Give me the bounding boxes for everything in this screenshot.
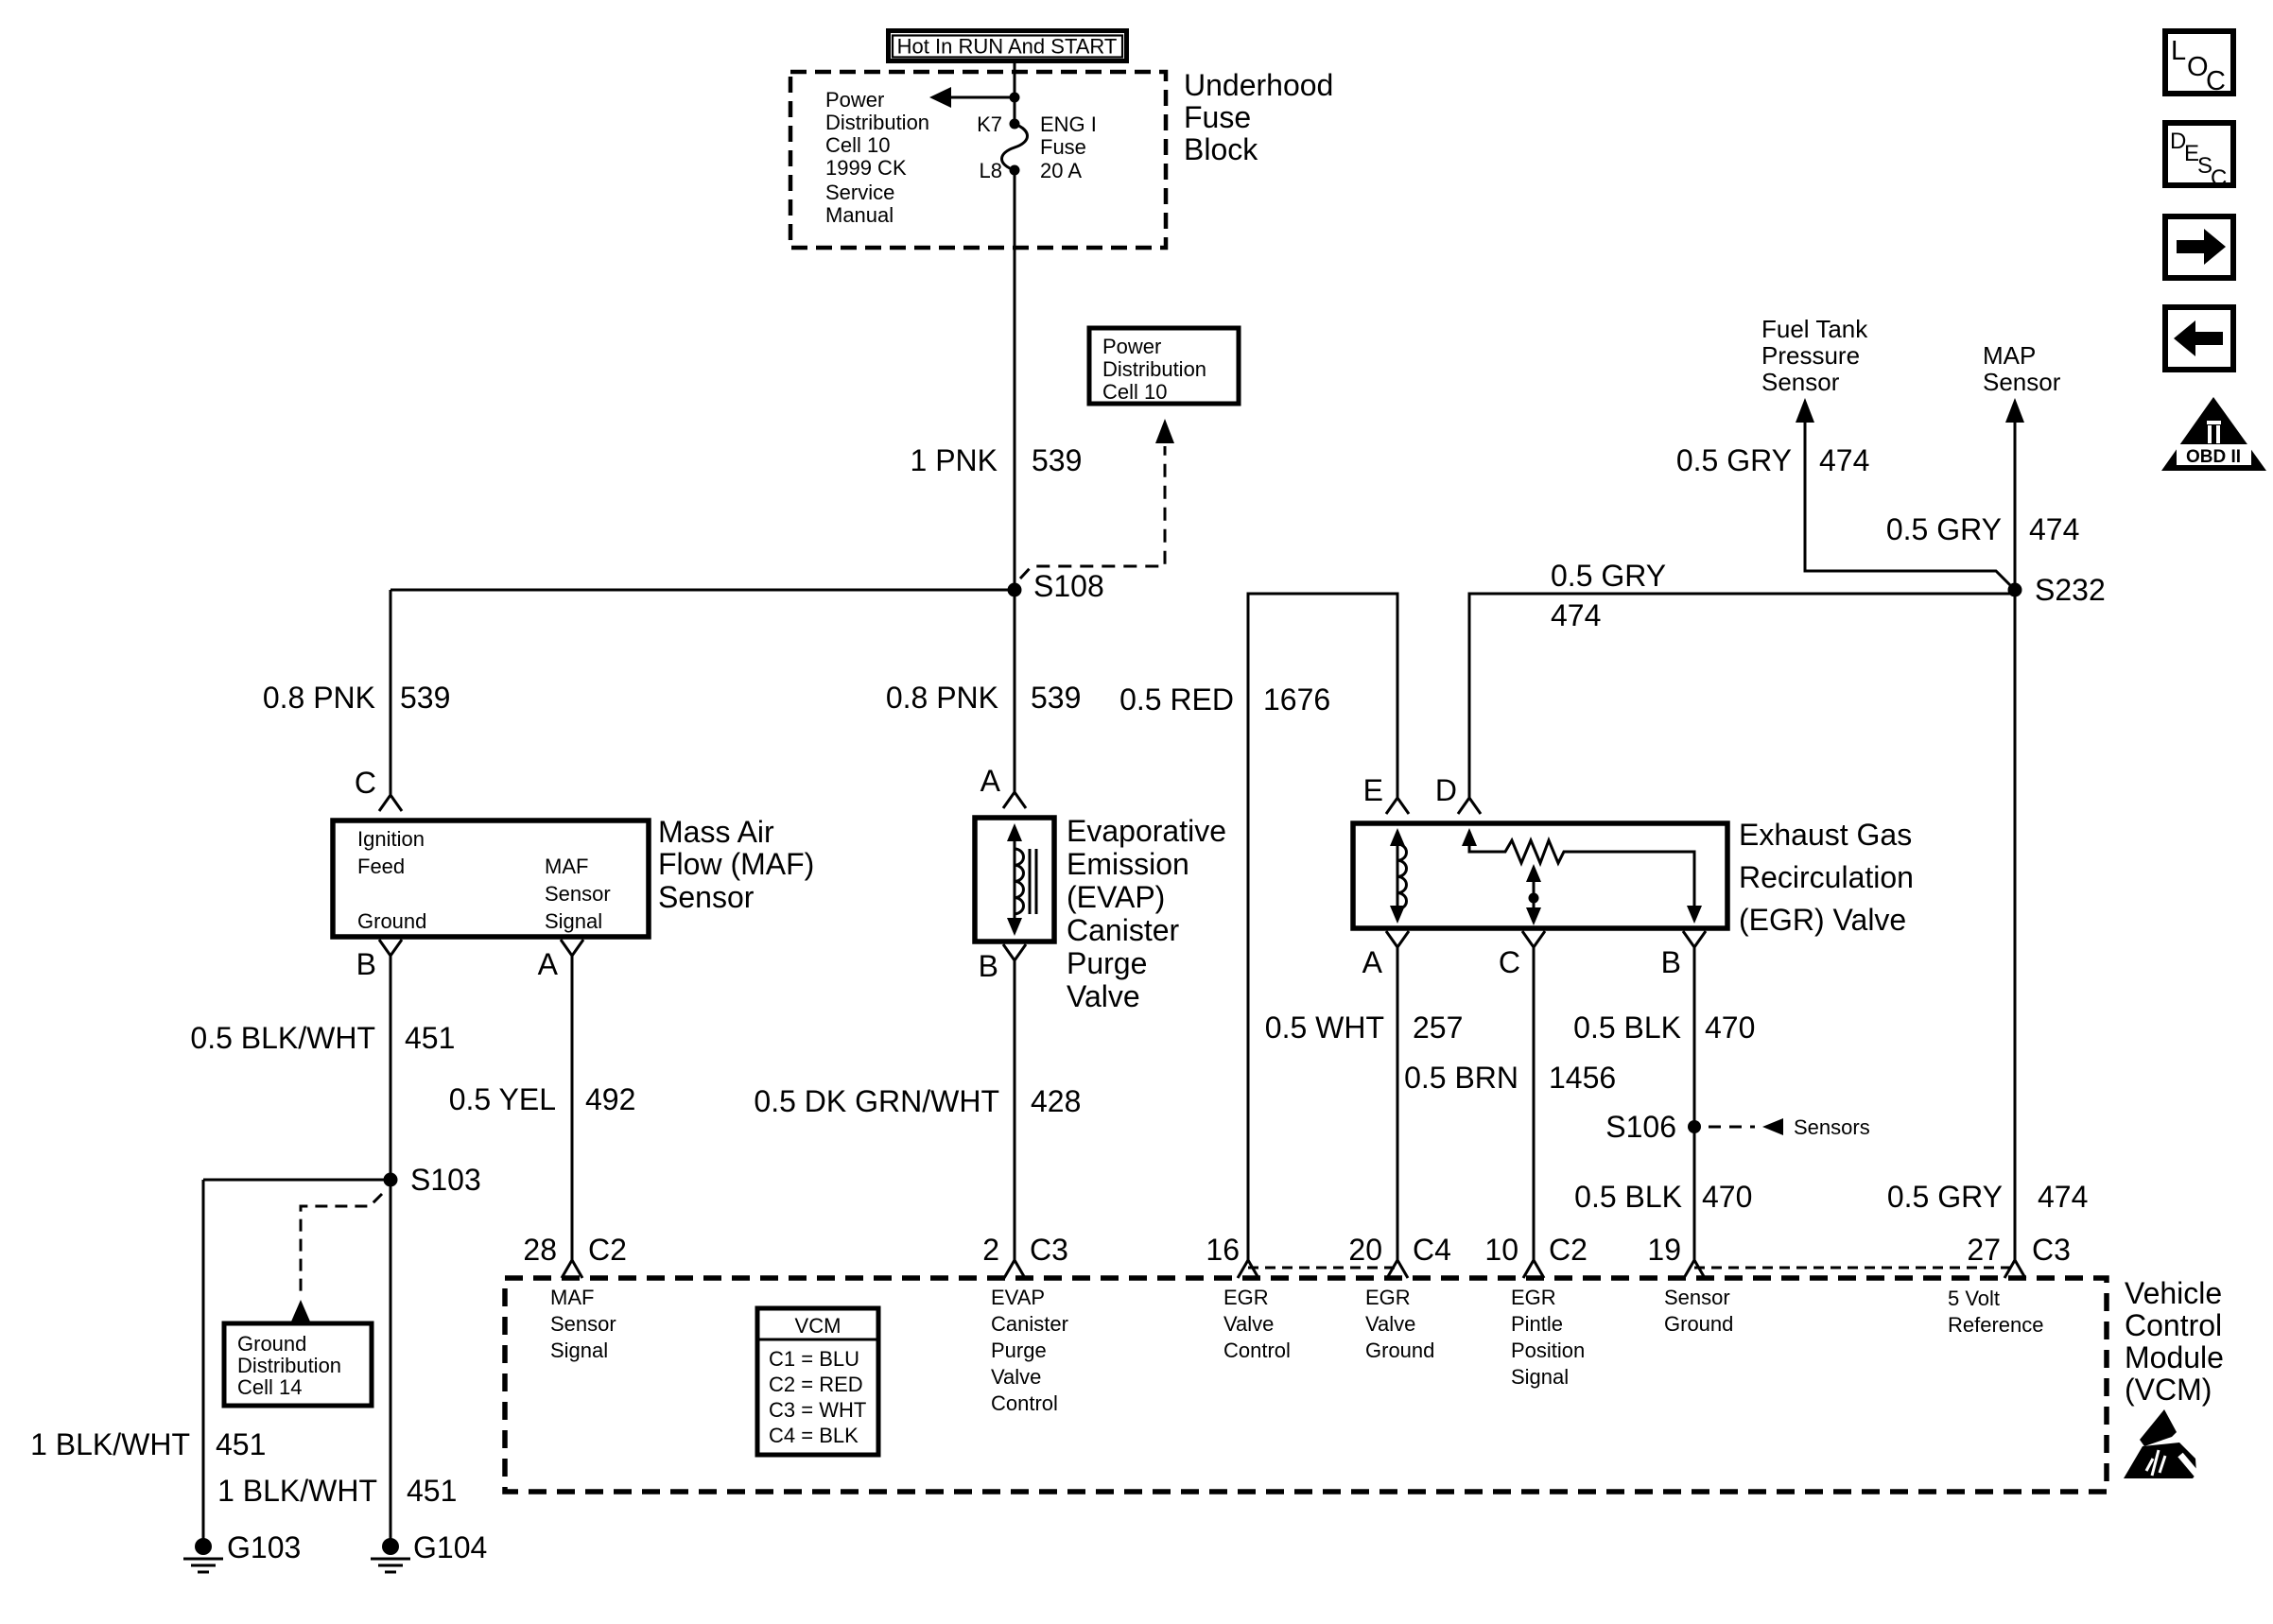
svg-text:470: 470 [1705, 1011, 1755, 1045]
wire from Hot In RUN into fuse block [1014, 63, 1016, 124]
svg-text:1 PNK: 1 PNK [911, 443, 998, 477]
svg-text:Canister: Canister [991, 1312, 1068, 1336]
svg-text:Ground: Ground [1365, 1339, 1434, 1362]
svg-text:Power: Power [825, 88, 884, 112]
svg-text:Underhood: Underhood [1184, 68, 1333, 102]
label EVAP Canister Purge Valve Control (pin 2 function) [991, 1286, 1068, 1415]
pin 28 C2 of VCM [562, 1260, 582, 1278]
icon DESC [2165, 123, 2233, 191]
svg-text:EGR: EGR [1365, 1286, 1411, 1309]
wire 0.5 GRY 474 to Fuel Tank Pressure Sensor [1805, 421, 2015, 590]
svg-text:428: 428 [1031, 1084, 1081, 1118]
svg-text:0.5 RED: 0.5 RED [1119, 682, 1234, 717]
svg-text:Flow (MAF): Flow (MAF) [658, 847, 814, 881]
svg-text:MAP: MAP [1983, 341, 2036, 370]
pin 20 C4 of VCM [1387, 1260, 1408, 1278]
svg-text:Canister: Canister [1067, 913, 1180, 947]
svg-text:A: A [980, 764, 1001, 798]
label Sensor Ground (pin 19 function) [1664, 1286, 1733, 1336]
svg-text:28: 28 [523, 1233, 557, 1267]
label Fuel Tank Pressure Sensor [1761, 315, 1868, 396]
wire 0.8 PNK 539 from S108 to MAF ignition feed (left branch) [390, 589, 1015, 592]
pin 19 of VCM [1684, 1260, 1705, 1278]
svg-text:K7: K7 [977, 112, 1002, 136]
svg-text:0.5 BRN: 0.5 BRN [1404, 1061, 1518, 1095]
svg-text:Position: Position [1511, 1339, 1585, 1362]
wire 0.5 YEL 492 from MAF A to VCM pin 28 [571, 956, 574, 1260]
wire 0.8 PNK 539 from S108 down to EVAP valve pin A [1014, 590, 1016, 792]
svg-text:0.5 DK GRN/WHT: 0.5 DK GRN/WHT [754, 1084, 999, 1118]
wire 0.5 BRN 1456 from EGR C to VCM pin 10 [1533, 947, 1536, 1260]
svg-text:Sensor: Sensor [545, 882, 611, 906]
svg-text:16: 16 [1206, 1233, 1240, 1267]
svg-text:0.5 BLK: 0.5 BLK [1574, 1180, 1682, 1214]
svg-text:(VCM): (VCM) [2125, 1373, 2212, 1407]
svg-text:Valve: Valve [991, 1365, 1041, 1389]
svg-text:C2: C2 [588, 1233, 627, 1267]
label EGR Valve Control (pin 16 function) [1223, 1286, 1291, 1362]
svg-text:C1 = BLU: C1 = BLU [769, 1347, 859, 1371]
svg-text:Control: Control [991, 1391, 1058, 1415]
svg-text:S103: S103 [410, 1163, 481, 1197]
pin B of MAF sensor [379, 940, 402, 956]
svg-text:C: C [2206, 66, 2226, 96]
svg-text:Sensors: Sensors [1794, 1115, 1870, 1139]
svg-text:VCM: VCM [795, 1314, 842, 1338]
svg-text:539: 539 [1032, 443, 1082, 477]
label Evaporative Emission (EVAP) Canister Purge Valve [1067, 814, 1226, 1013]
icon OBD II triangle [2161, 397, 2266, 471]
svg-text:L8: L8 [980, 159, 1002, 182]
pin C of MAF sensor [379, 795, 402, 811]
node Power Distribution Cell 10 reference box [1089, 328, 1239, 404]
svg-text:Sensor: Sensor [1983, 368, 2061, 396]
svg-text:Vehicle: Vehicle [2125, 1276, 2222, 1310]
svg-text:C3 = WHT: C3 = WHT [769, 1398, 866, 1422]
pin 10 C2 of VCM [1523, 1260, 1544, 1278]
pin B of EGR valve [1683, 931, 1706, 947]
VCM connector color legend box [757, 1308, 878, 1455]
svg-text:Valve: Valve [1365, 1312, 1415, 1336]
svg-text:Emission: Emission [1067, 847, 1189, 881]
svg-text:19: 19 [1647, 1233, 1681, 1267]
svg-text:B: B [979, 949, 998, 983]
svg-text:EGR: EGR [1511, 1286, 1556, 1309]
pin A of EGR valve [1386, 931, 1409, 947]
pin B of EVAP purge valve [1003, 944, 1026, 960]
wire 0.5 WHT 257 from EGR A to VCM pin 20 [1397, 947, 1399, 1260]
svg-text:0.8 PNK: 0.8 PNK [263, 681, 375, 715]
underhood fuse block internal note [825, 88, 929, 227]
label MAF Sensor Signal (pin 28 function) [550, 1286, 616, 1362]
label EGR Valve Ground (pin 20 function) [1365, 1286, 1434, 1362]
svg-text:Distribution: Distribution [1102, 357, 1206, 381]
svg-text:Ignition: Ignition [357, 827, 425, 851]
svg-text:Ground: Ground [357, 909, 426, 933]
splice S232 [2008, 583, 2022, 597]
svg-text:Sensor: Sensor [658, 880, 755, 914]
icon arrow left [2165, 307, 2233, 370]
svg-text:0.5 BLK/WHT: 0.5 BLK/WHT [190, 1021, 375, 1055]
svg-text:492: 492 [585, 1082, 635, 1116]
pin E of EGR valve [1386, 798, 1409, 814]
svg-text:(EGR) Valve: (EGR) Valve [1739, 903, 1906, 937]
svg-text:Signal: Signal [1511, 1365, 1569, 1389]
svg-text:Valve: Valve [1067, 979, 1140, 1013]
svg-text:B: B [356, 947, 376, 981]
MAF sensor box U1 [333, 821, 649, 937]
svg-text:Signal: Signal [545, 909, 602, 933]
svg-text:D: D [1435, 773, 1457, 807]
EVAP canister purge valve solenoid [975, 818, 1054, 942]
node Ground Distribution Cell 14 reference box [224, 1323, 372, 1406]
svg-text:257: 257 [1413, 1011, 1463, 1045]
svg-text:Evaporative: Evaporative [1067, 814, 1226, 848]
svg-text:Fuel Tank: Fuel Tank [1761, 315, 1868, 343]
svg-text:C4 = BLK: C4 = BLK [769, 1424, 859, 1447]
svg-text:Control: Control [1223, 1339, 1291, 1362]
pin 2 C3 of VCM [1004, 1260, 1025, 1278]
svg-text:Distribution: Distribution [237, 1354, 341, 1377]
underhood fuse block dashed box [790, 72, 1166, 248]
svg-text:Pressure: Pressure [1761, 341, 1860, 370]
svg-text:5 Volt: 5 Volt [1948, 1287, 2000, 1310]
svg-text:C: C [1499, 945, 1520, 979]
svg-text:C: C [355, 766, 376, 800]
svg-text:G103: G103 [227, 1530, 301, 1564]
svg-text:S232: S232 [2035, 573, 2106, 607]
svg-text:Purge: Purge [1067, 946, 1147, 980]
svg-text:1999 CK: 1999 CK [825, 156, 907, 180]
dashed reference wire from S103 to Ground Distribution Cell 14 [301, 1194, 382, 1297]
svg-text:C2: C2 [1549, 1233, 1588, 1267]
svg-text:Recirculation: Recirculation [1739, 860, 1914, 894]
wire branch to power distribution (left arrow) [949, 96, 1015, 99]
svg-text:474: 474 [2038, 1180, 2088, 1214]
svg-text:Sensor: Sensor [550, 1312, 616, 1336]
svg-text:Manual: Manual [825, 203, 894, 227]
svg-text:EGR: EGR [1223, 1286, 1269, 1309]
svg-text:Service: Service [825, 181, 894, 204]
svg-text:Exhaust Gas: Exhaust Gas [1739, 818, 1912, 852]
svg-text:Distribution: Distribution [825, 111, 929, 134]
svg-text:0.5 BLK: 0.5 BLK [1573, 1011, 1681, 1045]
svg-text:Reference: Reference [1948, 1313, 2044, 1337]
svg-text:Module: Module [2125, 1340, 2224, 1374]
fuse F1 ENG I 20A [977, 112, 1097, 182]
svg-text:470: 470 [1702, 1180, 1752, 1214]
svg-text:1456: 1456 [1549, 1061, 1616, 1095]
svg-text:A: A [1362, 945, 1383, 979]
label MAP Sensor [1983, 341, 2061, 396]
svg-text:Power: Power [1102, 335, 1161, 358]
svg-text:C: C [2211, 165, 2227, 191]
ground G103 [183, 1530, 301, 1572]
svg-text:474: 474 [1551, 598, 1601, 632]
pin 27 C3 of VCM [2004, 1260, 2025, 1278]
wire 0.5 BLK 470 from EGR B to VCM pin 19 [1693, 947, 1696, 1260]
svg-text:C3: C3 [1030, 1233, 1068, 1267]
svg-text:0.5 GRY: 0.5 GRY [1551, 559, 1666, 593]
svg-text:Cell 14: Cell 14 [237, 1375, 302, 1399]
svg-text:27: 27 [1967, 1233, 2001, 1267]
svg-text:L: L [2171, 36, 2186, 66]
svg-text:451: 451 [405, 1021, 455, 1055]
label 5 Volt Reference (pin 27 function) [1948, 1287, 2044, 1337]
junction node in fuse block [1010, 93, 1020, 103]
svg-text:ENG I: ENG I [1040, 112, 1097, 136]
svg-text:Fuse: Fuse [1184, 100, 1251, 134]
svg-text:MAF: MAF [545, 855, 588, 878]
pin C of EGR valve [1522, 931, 1545, 947]
dashed reference wire from S108 to Power Distribution Cell 10 [1020, 446, 1165, 579]
svg-text:Fuse: Fuse [1040, 135, 1086, 159]
svg-text:Pintle: Pintle [1511, 1312, 1563, 1336]
EGR pintle position potentiometer resistor [1462, 828, 1702, 924]
EGR solenoid coil (E to A) [1390, 828, 1406, 924]
svg-text:0.5 WHT: 0.5 WHT [1265, 1011, 1384, 1045]
wire branch from S103 to G103 [203, 1179, 390, 1182]
pin 16 of VCM [1238, 1260, 1258, 1278]
svg-text:Control: Control [2125, 1308, 2222, 1342]
pin A of MAF sensor [561, 940, 583, 956]
connector grouping dashed line pins 16-20 [1248, 1267, 1397, 1270]
svg-text:0.5 YEL: 0.5 YEL [449, 1082, 556, 1116]
svg-text:1 BLK/WHT: 1 BLK/WHT [30, 1427, 190, 1461]
svg-text:Ground: Ground [1664, 1312, 1733, 1336]
svg-text:451: 451 [216, 1427, 266, 1461]
label Underhood Fuse Block [1184, 68, 1333, 166]
wire 0.5 GRY 474 from EGR pin D to S232 [1469, 594, 2015, 798]
svg-text:Cell 10: Cell 10 [825, 133, 890, 157]
splice S103 [384, 1173, 398, 1187]
label Vehicle Control Module (VCM) [2125, 1276, 2224, 1407]
svg-text:C4: C4 [1413, 1233, 1451, 1267]
ESD sensitivity symbol [2124, 1409, 2200, 1478]
VCM module dashed box [505, 1278, 2107, 1492]
wire 1 PNK 539 from fuse to S108 [1014, 170, 1016, 590]
svg-text:S108: S108 [1033, 569, 1104, 603]
svg-text:Valve: Valve [1223, 1312, 1274, 1336]
svg-text:S106: S106 [1605, 1110, 1676, 1144]
svg-text:B: B [1661, 945, 1681, 979]
svg-text:0.8 PNK: 0.8 PNK [886, 681, 998, 715]
svg-text:C3: C3 [2032, 1233, 2071, 1267]
svg-text:539: 539 [400, 681, 450, 715]
svg-text:Purge: Purge [991, 1339, 1047, 1362]
splice S108 [1008, 583, 1022, 597]
wire 0.5 GRY 474 to MAP Sensor [2014, 421, 2017, 590]
svg-text:Block: Block [1184, 132, 1258, 166]
svg-text:OBD II: OBD II [2186, 447, 2241, 467]
label EGR Pintle Position Signal (pin 10 function) [1511, 1286, 1585, 1389]
wire 1 BLK/WHT 451 from S103 to G104 [390, 1180, 392, 1541]
svg-text:451: 451 [407, 1474, 457, 1508]
label Mass Air Flow (MAF) Sensor [658, 815, 814, 914]
svg-text:MAF: MAF [550, 1286, 594, 1309]
svg-text:EVAP: EVAP [991, 1286, 1045, 1309]
svg-text:20: 20 [1348, 1233, 1382, 1267]
label Exhaust Gas Recirculation (EGR) Valve [1739, 818, 1914, 937]
svg-text:Mass Air: Mass Air [658, 815, 774, 849]
wire 0.5 BLK/WHT 451 from MAF B to S103 [390, 956, 392, 1180]
svg-text:20 A: 20 A [1040, 159, 1082, 182]
svg-text:A: A [538, 947, 559, 981]
svg-text:0.5 GRY: 0.5 GRY [1887, 1180, 2003, 1214]
EGR potentiometer wiper [1526, 864, 1541, 925]
svg-text:10: 10 [1484, 1233, 1518, 1267]
wire 0.5 GRY 474 from S232 to VCM pin 27 [2014, 590, 2017, 1260]
svg-text:474: 474 [2029, 512, 2079, 546]
pin A of EVAP purge valve [1003, 792, 1026, 808]
node Hot In RUN And START [889, 31, 1127, 61]
svg-text:Signal: Signal [550, 1339, 608, 1362]
wire 0.5 RED 1676 from VCM pin 16 up and over to EGR pin E [1248, 594, 1397, 1260]
pin D of EGR valve [1458, 798, 1481, 814]
icon LOC [2165, 31, 2233, 96]
svg-text:Sensor: Sensor [1664, 1286, 1730, 1309]
svg-text:G104: G104 [413, 1530, 487, 1564]
ground G104 [371, 1530, 487, 1572]
connector grouping dashed line pins 19-27 [1694, 1267, 2015, 1270]
svg-text:Ground: Ground [237, 1332, 306, 1356]
svg-text:Hot In RUN And START: Hot In RUN And START [897, 35, 1118, 59]
svg-text:0.5 GRY: 0.5 GRY [1886, 512, 2002, 546]
svg-text:1 BLK/WHT: 1 BLK/WHT [217, 1474, 377, 1508]
svg-text:C2 = RED: C2 = RED [769, 1373, 863, 1396]
EGR valve box [1353, 823, 1727, 928]
svg-text:Cell 10: Cell 10 [1102, 380, 1167, 404]
dashed reference from S106 to Sensors [1709, 1126, 1755, 1129]
svg-text:1676: 1676 [1263, 682, 1330, 717]
wire 0.5 DK GRN/WHT 428 from EVAP B to VCM pin 2 [1014, 960, 1016, 1260]
svg-text:Sensor: Sensor [1761, 368, 1840, 396]
svg-text:2: 2 [982, 1233, 999, 1267]
svg-text:0.5 GRY: 0.5 GRY [1676, 443, 1792, 477]
splice S106 [1688, 1120, 1701, 1133]
icon arrow right [2165, 216, 2233, 278]
svg-text:E: E [1363, 773, 1383, 807]
svg-text:539: 539 [1031, 681, 1081, 715]
svg-text:474: 474 [1819, 443, 1869, 477]
svg-text:Feed: Feed [357, 855, 405, 878]
svg-text:(EVAP): (EVAP) [1067, 880, 1165, 914]
